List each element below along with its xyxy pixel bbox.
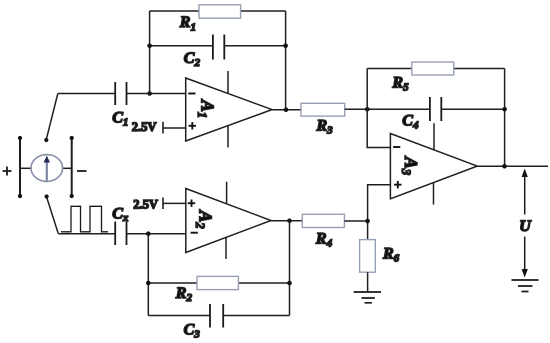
wire: R2 row segments [148,282,289,284]
svg-text:C4: C4 [402,113,419,132]
svg-text:C2: C2 [184,50,201,69]
wire: upper branch into C1 [58,93,115,95]
node: A1 output junction [284,107,289,112]
U measurement arrow (double headed) [522,169,528,278]
wire: R3 to C4 row [345,108,505,110]
resistor R5 [412,62,454,75]
current source I [31,155,63,182]
resistor R4 [302,214,344,227]
op-amp A2 [186,182,271,259]
node: R2 left junction [146,281,151,286]
node: A2 output junction [287,219,292,224]
wire: A1 output to R3 [272,109,301,111]
capacitor Cx [115,222,126,246]
wire: C2 row segments [150,45,286,47]
wire: A3 non-inverting input from R4 node [368,185,391,221]
svg-text:A3: A3 [399,156,421,175]
resistor R1 [199,5,241,18]
wire: 2.5V terminal tick to A1 non-inverting input [163,122,186,134]
svg-text:C3: C3 [184,322,201,341]
svg-text:R2: R2 [175,285,193,304]
op-amp A1 [186,71,272,148]
svg-text:A1: A1 [195,99,217,118]
wire: C3 row segments [148,315,289,317]
svg-text:R1: R1 [179,14,196,33]
wire: R1 top segments [150,10,286,12]
switch wiper bottom (pole dot + lever to lower branch) [47,197,59,234]
wire: 2.5V terminal tick to A2 non-inverting input [163,198,186,210]
square wave symbol [61,206,108,232]
wire: A3 output [477,165,548,167]
svg-text:Cx: Cx [112,206,129,225]
wire: node down to A3 inverting input [367,109,390,147]
plus polarity label of source [3,167,12,176]
wire: Cx to A2 inverting input [127,233,186,235]
wire: feedback loop left vertical (R1/C2) [149,11,151,94]
node: C4 right junction [502,107,507,112]
terminal bar right [63,138,72,196]
terminal bar left [20,138,31,196]
wire: lower branch into square wave / Cx [58,233,115,235]
node: R4 / R6 / A3 non-inverting junction [365,219,370,224]
resistor R6 [360,240,376,273]
minus polarity label of source [77,170,87,172]
svg-text:2.5V: 2.5V [133,197,158,211]
wire: R5 top segments [367,68,504,70]
wire: R5 loop left vertical [366,69,368,110]
ground (R6) [354,292,381,303]
svg-text:U: U [519,218,532,235]
wire: R6 to ground [367,272,369,292]
wire: feedback loop right vertical (R1/C2 to A1 output) [285,11,287,110]
node: R3 / R5 / A3 inverting junction [365,107,370,112]
op-amp A3 [390,123,477,204]
svg-text:A2: A2 [193,209,215,228]
wire: A2 feedback left vertical [147,234,149,316]
wire: A2 output to R4 [271,220,302,222]
switch wiper top (pole dot + lever to upper branch) [46,94,58,140]
ground (output) [512,280,539,292]
capacitor C3 [210,304,223,328]
node: C2 left junction [147,44,152,49]
resistor R2 [197,276,238,289]
node: A3 output junction [502,164,507,169]
svg-text:2.5V: 2.5V [132,120,157,134]
wire: A2 feedback right vertical [289,221,291,316]
resistor R3 [301,103,345,116]
capacitor C4 [430,97,441,121]
wire: R4 to node [344,220,367,222]
capacitor C2 [213,35,224,60]
svg-text:R4: R4 [315,230,333,249]
svg-text:C1: C1 [112,109,128,128]
capacitor C1 [115,82,126,105]
node: A1 inverting input junction [147,91,152,96]
svg-text:R3: R3 [316,118,334,137]
wire: C1 to A1 inverting input [127,93,186,95]
svg-text:R6: R6 [382,246,400,265]
svg-text:R5: R5 [391,75,409,94]
wire: node down into R6 [367,221,369,240]
wire: R5/C4 loop right vertical down to output [504,69,506,167]
node: A2 inverting input junction [146,231,151,236]
node: C2 right junction [283,44,288,49]
node: R2 right junction [287,281,292,286]
